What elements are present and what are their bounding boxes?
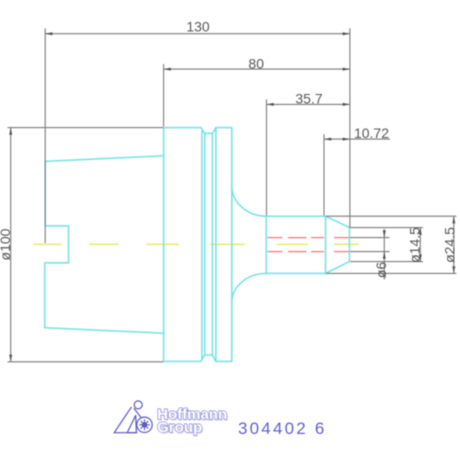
notch top [45,225,68,227]
logo body line [134,408,141,418]
dim o14.5 top extension line [350,227,423,229]
svg-text:35.7: 35.7 [295,90,322,106]
dim 35.7 line [267,103,350,105]
svg-text:80: 80 [248,55,264,71]
arrow o24.5 top [452,216,455,223]
dimension labels (gray text) [0,19,458,279]
flange bottom groove top [205,354,213,356]
dim o14.5 bottom extension line [350,261,423,263]
flange top groove chamfer right [212,128,216,134]
svg-text:10.72: 10.72 [354,125,389,141]
flange bottom edge right [216,360,232,362]
flange top groove bottom [205,132,213,134]
dim o14.5 vertical line [419,228,421,262]
dim 80 line [164,68,350,70]
tip end face [348,228,350,262]
Hoffmann Group logo mark [114,401,152,433]
arrow 35.7 left [267,103,274,106]
notch right wall [68,226,70,263]
flange groove edge line 4 [215,128,217,362]
svg-text:ø24.5: ø24.5 [442,227,458,263]
logo head circle [134,401,142,409]
part number text [238,419,327,438]
dimension linework (gray) [8,28,457,362]
dim o24.5 vertical line [453,216,455,273]
arrow o24.5 bottom [452,266,455,273]
dim o6 vertical line [383,229,385,280]
flange groove edge line 1 [201,131,203,358]
dim o6 top extension line [350,237,390,239]
arrowheads (gray) [9,32,455,362]
logo outer triangle left edge [114,407,137,433]
arrow o100 top [9,128,12,135]
flange groove edge line 2 [204,133,206,355]
arrow 130 right [343,32,350,35]
dim o100 bottom extension line [8,361,164,363]
taper junction edge [325,216,327,273]
flange right face [231,128,233,362]
taper body top edge [45,156,163,162]
dim o24.5 bottom extension line [326,272,457,274]
arrow 10.72 right [343,138,350,141]
neck fillet arc bottom [232,273,266,302]
hidden bore o6 bottom line (red dashed) [268,251,350,253]
neck fillet arc top [232,186,266,216]
dim 130 left extension line [44,28,46,243]
arrow o6 bottom (points up) [383,252,386,259]
logo wheel star spokes [139,419,150,430]
dim o24.5 top extension line [326,215,457,217]
flange bottom edge left [164,360,201,362]
neck bottom edge [266,272,325,274]
dim 35.7 left extension line [266,99,268,215]
hidden bore o6 top line (red dashed) [268,237,350,239]
centerline (yellow dash-dot axis) [34,243,359,245]
arrow 10.72 left [324,138,331,141]
logo wheel circle [137,417,152,432]
arrow 80 right [343,68,350,71]
dim o100 top extension line [8,127,164,129]
logo wheel hub [142,423,146,427]
flange groove edge line 3 [211,133,213,355]
arrow 130 left [45,32,52,35]
logo inner triangle [127,415,136,433]
dim 80 left extension line [163,64,165,126]
neck tangent edge [265,216,267,273]
svg-text:ø6: ø6 [373,262,389,279]
dim 10.72 line with leader [324,138,390,140]
dim o6 bottom extension line [350,251,390,253]
body left edge lower [44,263,46,328]
arrow 80 left [164,68,171,71]
dim 130 line [45,33,350,35]
arrow 35.7 right [343,103,350,106]
svg-text:Group: Group [157,419,202,436]
svg-text:ø14.5: ø14.5 [407,227,423,263]
arrow o6 top (points down) [383,230,386,237]
svg-text:304402 6: 304402 6 [238,419,327,438]
flange top groove chamfer left [201,128,205,134]
flange left face [163,128,165,362]
svg-text:ø100: ø100 [0,228,13,260]
notch bottom [45,262,69,264]
arrow o100 bottom [9,355,12,362]
flange bottom groove chamfer left [201,355,205,361]
flange top edge right [216,127,232,129]
dim 10.72 left extension line [323,134,325,215]
tip taper top [326,216,350,227]
arrow o14.5 bottom [419,254,422,261]
taper body bottom edge [45,328,164,334]
tip taper bottom [326,262,350,274]
svg-text:130: 130 [186,19,210,35]
flange top edge left [164,127,201,129]
arrow o14.5 top [419,228,422,235]
neck top edge [266,215,325,217]
common right extension line [349,28,351,228]
part outline (cyan) [45,128,350,362]
body left edge upper [44,161,46,226]
dim o100 vertical line [10,128,12,362]
Hoffmann Group logo text [157,406,227,436]
flange bottom groove chamfer right [212,355,216,361]
